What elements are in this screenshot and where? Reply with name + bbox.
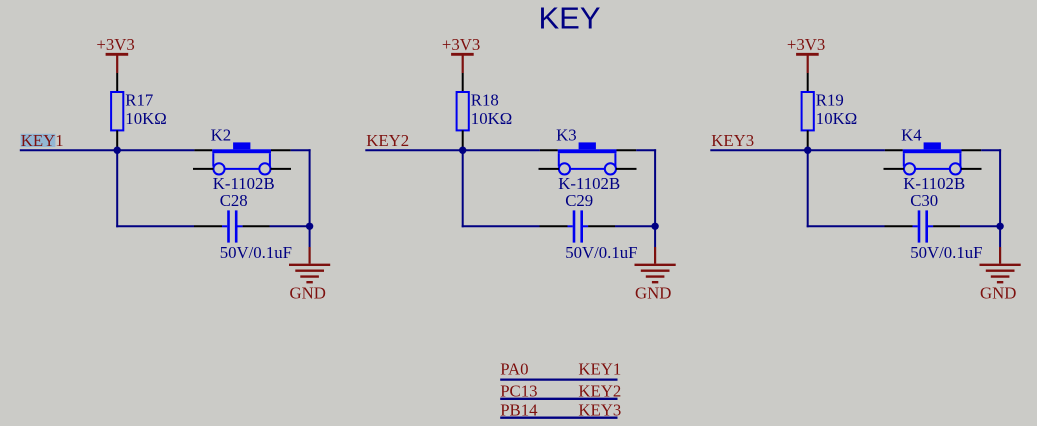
pin: switch K3 pin 3 (bottom left stub) bbox=[539, 168, 559, 170]
svg-text:C28: C28 bbox=[220, 191, 248, 210]
node junction at resistor R17 bottom bbox=[114, 147, 121, 154]
pin: resistor R17 bottom bbox=[116, 130, 118, 149]
wire: bottom horizontal to capacitor C28 bbox=[116, 225, 194, 227]
wire: left vertical bbox=[116, 150, 118, 227]
node junction at ground branch bbox=[996, 223, 1003, 230]
wire: pin-map row PC13/KEY2 bbox=[500, 398, 617, 400]
pin: switch K3 pin 2 (top right) bbox=[617, 149, 637, 151]
wire: left vertical bbox=[807, 150, 809, 227]
svg-text:KEY1: KEY1 bbox=[21, 131, 64, 150]
svg-text:R17: R17 bbox=[125, 91, 153, 110]
pin: switch K4 pin 4 (bottom right stub) bbox=[961, 168, 982, 170]
pin: power to resistor R19 bbox=[807, 73, 809, 92]
svg-text:C30: C30 bbox=[910, 191, 938, 210]
wire: capacitor C29 to ground node bbox=[615, 225, 655, 227]
svg-text:C29: C29 bbox=[565, 191, 593, 210]
ground GND power port bbox=[980, 247, 1021, 282]
pin: switch K2 pin 1 (top left) bbox=[194, 149, 212, 151]
svg-text:50V/0.1uF: 50V/0.1uF bbox=[910, 243, 982, 262]
wire: right vertical bbox=[309, 149, 311, 226]
wire: switch K4 to right vertical bbox=[981, 149, 1001, 151]
pin: capacitor C28 pin 1 bbox=[194, 225, 222, 227]
pin: switch K3 pin 1 (top left) bbox=[540, 149, 558, 151]
wire: down to GND port bbox=[309, 226, 311, 247]
svg-text:10KΩ: 10KΩ bbox=[471, 109, 512, 128]
pin: switch K4 pin 2 (top right) bbox=[962, 149, 982, 151]
switch K2 body bbox=[212, 142, 271, 174]
resistor R17 bbox=[111, 92, 123, 130]
wire: KEY2 horizontal bbox=[365, 149, 540, 151]
svg-text:+3V3: +3V3 bbox=[96, 35, 134, 54]
wire: right vertical bbox=[654, 149, 656, 226]
wire: switch K2 to right vertical bbox=[291, 149, 311, 151]
wire: down to GND port bbox=[999, 226, 1001, 247]
pin: resistor R19 bottom bbox=[807, 130, 809, 149]
pin: capacitor C30 pin 1 bbox=[885, 225, 913, 227]
wire: switch K3 to right vertical bbox=[636, 149, 656, 151]
svg-text:+3V3: +3V3 bbox=[787, 35, 825, 54]
pin: switch K2 pin 2 (top right) bbox=[271, 149, 291, 151]
svg-text:R18: R18 bbox=[471, 91, 499, 110]
svg-text:GND: GND bbox=[290, 284, 326, 303]
svg-text:PA0: PA0 bbox=[500, 359, 528, 378]
power +3V3 (KEY3 circuit) bbox=[787, 35, 825, 73]
pin: power to resistor R17 bbox=[116, 73, 118, 92]
pin: power to resistor R18 bbox=[462, 73, 464, 92]
node junction at resistor R18 bottom bbox=[459, 147, 466, 154]
svg-text:GND: GND bbox=[980, 284, 1016, 303]
selection highlight on net label KEY bbox=[21, 134, 56, 147]
pin: resistor R18 bottom bbox=[462, 130, 464, 149]
svg-text:K4: K4 bbox=[901, 126, 922, 145]
svg-text:GND: GND bbox=[635, 284, 671, 303]
wire: left vertical bbox=[462, 150, 464, 227]
pin: switch K2 pin 4 (bottom right stub) bbox=[271, 168, 292, 170]
wire: KEY1 horizontal bbox=[20, 149, 195, 151]
svg-text:KEY3: KEY3 bbox=[711, 131, 754, 150]
svg-text:KEY1: KEY1 bbox=[578, 359, 621, 378]
resistor R18 bbox=[457, 92, 469, 130]
pin: capacitor C29 pin 2 bbox=[588, 225, 615, 227]
svg-text:PC13: PC13 bbox=[500, 381, 537, 400]
ground GND power port bbox=[289, 247, 330, 282]
wire: capacitor C30 to ground node bbox=[960, 225, 1000, 227]
wire: KEY3 horizontal bbox=[710, 149, 885, 151]
switch K3 body bbox=[558, 142, 617, 174]
svg-text:10KΩ: 10KΩ bbox=[816, 109, 857, 128]
node junction at resistor R19 bottom bbox=[804, 147, 811, 154]
pin: switch K4 pin 3 (bottom left stub) bbox=[884, 168, 904, 170]
svg-text:KEY3: KEY3 bbox=[578, 400, 621, 419]
svg-text:+3V3: +3V3 bbox=[442, 35, 480, 54]
pin: switch K2 pin 3 (bottom left stub) bbox=[193, 168, 213, 170]
wire: pin-map row PB14/KEY3 bbox=[500, 417, 617, 419]
resistor R19 bbox=[802, 92, 814, 130]
wire: pin-map row PA0/KEY1 bbox=[500, 378, 617, 380]
svg-text:KEY: KEY bbox=[538, 1, 600, 36]
pin: switch K3 pin 4 (bottom right stub) bbox=[616, 168, 637, 170]
wire: capacitor C28 to ground node bbox=[270, 225, 310, 227]
pin: capacitor C28 pin 2 bbox=[243, 225, 270, 227]
svg-text:KEY2: KEY2 bbox=[578, 381, 621, 400]
svg-text:PB14: PB14 bbox=[500, 400, 538, 419]
pin: capacitor C30 pin 2 bbox=[933, 225, 960, 227]
svg-text:10KΩ: 10KΩ bbox=[125, 109, 166, 128]
svg-text:R19: R19 bbox=[816, 91, 844, 110]
switch K4 body bbox=[903, 142, 962, 174]
power +3V3 (KEY2 circuit) bbox=[442, 35, 480, 73]
wire: down to GND port bbox=[654, 226, 656, 247]
svg-text:50V/0.1uF: 50V/0.1uF bbox=[220, 243, 292, 262]
svg-text:KEY2: KEY2 bbox=[366, 131, 409, 150]
svg-text:50V/0.1uF: 50V/0.1uF bbox=[565, 243, 637, 262]
pin: switch K4 pin 1 (top left) bbox=[885, 149, 903, 151]
capacitor C29 bbox=[568, 210, 589, 242]
wire: bottom horizontal to capacitor C30 bbox=[807, 225, 885, 227]
svg-text:K2: K2 bbox=[211, 126, 232, 145]
capacitor C30 bbox=[913, 210, 934, 242]
svg-text:K3: K3 bbox=[556, 126, 577, 145]
ground GND power port bbox=[635, 247, 676, 282]
capacitor C28 bbox=[222, 210, 243, 242]
wire: right vertical bbox=[999, 149, 1001, 226]
pin: capacitor C29 pin 1 bbox=[540, 225, 568, 227]
power +3V3 (KEY1 circuit) bbox=[96, 35, 134, 73]
node junction at ground branch bbox=[651, 223, 658, 230]
node junction at ground branch bbox=[306, 223, 313, 230]
wire: bottom horizontal to capacitor C29 bbox=[462, 225, 540, 227]
